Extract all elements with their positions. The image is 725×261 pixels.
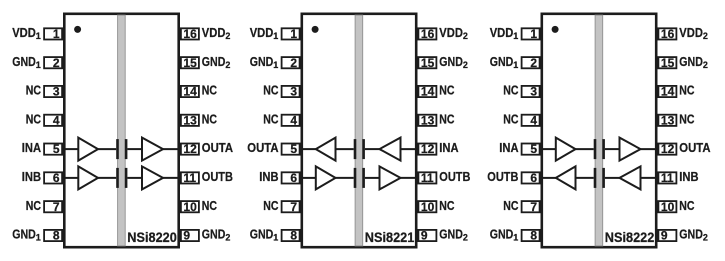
pin 14 box U2 xyxy=(418,86,436,97)
isolation capacitor CA left plate xyxy=(116,139,119,159)
wire U2 pin 6 (INB) to channel-B left buffer xyxy=(301,177,316,179)
svg-text:OUTB: OUTB xyxy=(439,169,470,184)
svg-text:4: 4 xyxy=(530,113,537,127)
svg-text:NC: NC xyxy=(503,198,519,213)
pin 11 box U2 xyxy=(418,172,436,183)
svg-text:GND: GND xyxy=(250,227,274,242)
pin 1 label VDD1 xyxy=(250,25,279,41)
svg-text:1: 1 xyxy=(273,60,278,70)
pin 3 box U1 xyxy=(44,86,62,97)
svg-text:NC: NC xyxy=(679,198,695,213)
svg-text:6: 6 xyxy=(530,171,537,185)
pin 1 box U1 xyxy=(44,28,62,39)
svg-text:1: 1 xyxy=(53,27,60,41)
buffer U3B2 channel B right (driver) xyxy=(620,166,641,189)
pin 14 box U3 xyxy=(658,86,676,97)
pin 15 label GND2 xyxy=(439,54,468,70)
svg-text:5: 5 xyxy=(53,142,60,156)
pin 8 box U1 xyxy=(44,230,62,241)
pin 9 box U2 xyxy=(418,230,436,241)
pin 1 label VDD1 xyxy=(12,25,41,41)
svg-text:3: 3 xyxy=(53,85,60,99)
wire U1 pin 6 (INB) to channel-B left buffer xyxy=(63,177,78,179)
pin 7 box U1 xyxy=(44,201,62,212)
svg-text:INA: INA xyxy=(22,140,42,155)
svg-text:11: 11 xyxy=(661,171,674,185)
pin 13 box U3 xyxy=(658,115,676,126)
svg-text:NC: NC xyxy=(26,198,42,213)
pin 8 label GND1 xyxy=(490,227,519,243)
pin 1 indicator dot U2 xyxy=(312,26,319,33)
isolation capacitor CA right plate xyxy=(125,139,128,159)
svg-text:GND: GND xyxy=(439,227,463,242)
wire isolation capacitor CA to channel-A right buffer xyxy=(127,148,142,150)
pin 1 indicator dot U1 xyxy=(74,26,81,33)
wire channel-B right buffer to pin 11 (OUTB) xyxy=(163,177,180,179)
svg-text:5: 5 xyxy=(290,142,297,156)
svg-text:14: 14 xyxy=(183,85,197,99)
isolation barrier U3 xyxy=(595,15,603,246)
isolation capacitor CB left plate xyxy=(116,168,119,188)
wire channel-B left buffer to isolation capacitor CB xyxy=(336,177,354,179)
buffer U1A2 channel A right (receiver) xyxy=(142,138,163,161)
svg-text:2: 2 xyxy=(703,233,708,243)
svg-text:2: 2 xyxy=(290,56,297,70)
svg-text:6: 6 xyxy=(290,171,297,185)
svg-text:15: 15 xyxy=(661,56,675,70)
svg-text:VDD: VDD xyxy=(679,25,703,40)
svg-text:2: 2 xyxy=(225,60,230,70)
svg-text:9: 9 xyxy=(421,229,428,243)
svg-text:NC: NC xyxy=(679,111,695,126)
pin 8 box U2 xyxy=(282,230,300,241)
svg-text:NC: NC xyxy=(202,83,218,98)
svg-text:INB: INB xyxy=(259,169,278,184)
wire isolation capacitor CB to channel-B right buffer xyxy=(605,177,620,179)
svg-text:16: 16 xyxy=(661,27,675,41)
svg-text:GND: GND xyxy=(490,227,514,242)
wire isolation capacitor CB to channel-B right buffer xyxy=(127,177,142,179)
svg-text:13: 13 xyxy=(183,113,197,127)
svg-text:GND: GND xyxy=(679,227,703,242)
pin 2 label GND1 xyxy=(250,54,279,70)
svg-text:GND: GND xyxy=(439,54,463,69)
pin 15 label GND2 xyxy=(679,54,708,70)
svg-text:7: 7 xyxy=(53,200,60,214)
isolation capacitor CB right plate xyxy=(125,168,128,188)
pin 2 box U3 xyxy=(522,57,540,68)
wire isolation capacitor CA to channel-A right buffer xyxy=(605,148,620,150)
svg-text:7: 7 xyxy=(290,200,297,214)
isolation capacitor CB left plate xyxy=(594,168,597,188)
pin 6 box U2 xyxy=(282,172,300,183)
pin 9 box U3 xyxy=(658,230,676,241)
wire isolation capacitor CB to channel-B right buffer xyxy=(365,177,380,179)
isolation capacitor CB left plate xyxy=(354,168,357,188)
wire isolation capacitor CA to channel-A right buffer xyxy=(365,148,380,150)
svg-text:12: 12 xyxy=(421,142,435,156)
svg-text:11: 11 xyxy=(183,171,196,185)
pin 3 box U2 xyxy=(282,86,300,97)
svg-text:8: 8 xyxy=(530,229,537,243)
pin 5 box U3 xyxy=(522,144,540,155)
pin 16 box U3 xyxy=(658,28,676,39)
svg-text:4: 4 xyxy=(290,113,297,127)
svg-text:11: 11 xyxy=(421,171,434,185)
buffer U2B1 channel B left (driver) xyxy=(316,166,336,189)
IC U1 NSi8220 package body xyxy=(64,14,178,247)
svg-text:1: 1 xyxy=(36,233,41,243)
pin 12 box U1 xyxy=(181,144,199,155)
svg-text:2: 2 xyxy=(463,60,468,70)
pin 16 label VDD2 xyxy=(679,25,708,41)
svg-text:INA: INA xyxy=(439,140,459,155)
svg-text:13: 13 xyxy=(421,113,435,127)
svg-text:15: 15 xyxy=(183,56,197,70)
pin 2 label GND1 xyxy=(12,54,41,70)
svg-text:2: 2 xyxy=(53,56,60,70)
buffer U2A1 channel A left (receiver) xyxy=(316,138,336,161)
pin 1 box U3 xyxy=(522,28,540,39)
svg-text:GND: GND xyxy=(12,54,36,69)
wire channel-A left buffer to isolation capacitor CA xyxy=(98,148,116,150)
svg-text:VDD: VDD xyxy=(490,25,514,40)
svg-text:8: 8 xyxy=(290,229,297,243)
svg-text:14: 14 xyxy=(661,85,675,99)
svg-text:NC: NC xyxy=(503,111,519,126)
IC U3 NSi8222 package body xyxy=(542,14,656,247)
pin 1 box U2 xyxy=(282,28,300,39)
svg-text:7: 7 xyxy=(530,200,537,214)
svg-text:2: 2 xyxy=(463,233,468,243)
svg-text:VDD: VDD xyxy=(439,25,463,40)
svg-text:GND: GND xyxy=(12,227,36,242)
pin 9 label GND2 xyxy=(202,227,231,243)
svg-text:NC: NC xyxy=(263,111,279,126)
svg-text:NC: NC xyxy=(26,111,42,126)
pin 7 box U3 xyxy=(522,201,540,212)
svg-text:NSi8222: NSi8222 xyxy=(605,229,655,245)
svg-text:16: 16 xyxy=(421,27,435,41)
svg-text:1: 1 xyxy=(36,31,41,41)
pin 5 box U2 xyxy=(282,144,300,155)
pin 3 box U3 xyxy=(522,86,540,97)
buffer U1B1 channel B left (driver) xyxy=(78,166,98,189)
pin 2 label GND1 xyxy=(490,54,519,70)
wire channel-B left buffer to isolation capacitor CB xyxy=(576,177,594,179)
svg-text:3: 3 xyxy=(530,85,537,99)
pin 4 box U2 xyxy=(282,115,300,126)
svg-text:GND: GND xyxy=(250,54,274,69)
svg-text:GND: GND xyxy=(679,54,703,69)
svg-text:2: 2 xyxy=(225,233,230,243)
svg-text:NSi8220: NSi8220 xyxy=(127,229,177,245)
svg-text:2: 2 xyxy=(703,60,708,70)
pin 1 indicator dot U3 xyxy=(552,26,559,33)
isolation capacitor CB right plate xyxy=(602,168,605,188)
svg-text:OUTB: OUTB xyxy=(202,169,233,184)
pin 7 box U2 xyxy=(282,201,300,212)
svg-text:8: 8 xyxy=(53,229,60,243)
svg-text:NC: NC xyxy=(439,111,455,126)
pin 10 box U3 xyxy=(658,201,676,212)
buffer U3B1 channel B left (receiver) xyxy=(556,166,576,189)
pin 8 box U3 xyxy=(522,230,540,241)
svg-text:NC: NC xyxy=(26,83,42,98)
svg-text:1: 1 xyxy=(273,233,278,243)
pin 5 box U1 xyxy=(44,144,62,155)
svg-text:12: 12 xyxy=(661,142,675,156)
pin 16 label VDD2 xyxy=(439,25,468,41)
buffer U3A1 channel A left (driver) xyxy=(556,138,576,161)
svg-text:GND: GND xyxy=(202,54,226,69)
svg-text:10: 10 xyxy=(421,200,435,214)
wire U2 pin 5 (OUTA) to channel-A left buffer xyxy=(301,148,316,150)
svg-text:4: 4 xyxy=(53,113,60,127)
wire channel-B right buffer to pin 11 (INB) xyxy=(641,177,658,179)
wire U3 pin 6 (OUTB) to channel-B left buffer xyxy=(541,177,556,179)
buffer U3A2 channel A right (receiver) xyxy=(620,138,641,161)
pin 1 label VDD1 xyxy=(490,25,519,41)
pin 16 box U1 xyxy=(181,28,199,39)
svg-text:13: 13 xyxy=(661,113,675,127)
pin 12 box U3 xyxy=(658,144,676,155)
pin 11 box U3 xyxy=(658,172,676,183)
pin 15 box U2 xyxy=(418,57,436,68)
svg-text:9: 9 xyxy=(183,229,190,243)
svg-text:1: 1 xyxy=(273,31,278,41)
svg-text:OUTA: OUTA xyxy=(202,140,234,155)
svg-text:GND: GND xyxy=(202,227,226,242)
buffer U1A1 channel A left (driver) xyxy=(78,138,98,161)
isolation capacitor CA left plate xyxy=(354,139,357,159)
svg-text:VDD: VDD xyxy=(12,25,36,40)
isolation barrier U1 xyxy=(118,15,126,246)
pin 15 box U1 xyxy=(181,57,199,68)
isolation barrier U2 xyxy=(355,15,363,246)
pin 15 box U3 xyxy=(658,57,676,68)
buffer U2A2 channel A right (driver) xyxy=(380,138,401,161)
pin 6 box U1 xyxy=(44,172,62,183)
pin 9 label GND2 xyxy=(439,227,468,243)
svg-text:10: 10 xyxy=(183,200,197,214)
pin 8 label GND1 xyxy=(250,227,279,243)
svg-text:OUTA: OUTA xyxy=(247,140,279,155)
wire channel-B right buffer to pin 11 (OUTB) xyxy=(401,177,418,179)
svg-text:1: 1 xyxy=(513,60,518,70)
pin 13 box U1 xyxy=(181,115,199,126)
pin 9 label GND2 xyxy=(679,227,708,243)
svg-text:VDD: VDD xyxy=(202,25,226,40)
buffer U1B2 channel B right (receiver) xyxy=(142,166,163,189)
isolation capacitor CA right plate xyxy=(602,139,605,159)
svg-text:2: 2 xyxy=(530,56,537,70)
pin 16 box U2 xyxy=(418,28,436,39)
pin 11 box U1 xyxy=(181,172,199,183)
svg-text:1: 1 xyxy=(36,60,41,70)
pin 14 box U1 xyxy=(181,86,199,97)
svg-text:6: 6 xyxy=(53,171,60,185)
pin 4 box U1 xyxy=(44,115,62,126)
IC U2 NSi8221 package body xyxy=(302,14,416,247)
svg-text:3: 3 xyxy=(290,85,297,99)
svg-text:2: 2 xyxy=(225,31,230,41)
pin 16 label VDD2 xyxy=(202,25,231,41)
svg-text:16: 16 xyxy=(183,27,197,41)
wire channel-A left buffer to isolation capacitor CA xyxy=(576,148,594,150)
svg-text:2: 2 xyxy=(463,31,468,41)
wire channel-A right buffer to pin 12 (INA) xyxy=(401,148,418,150)
svg-text:5: 5 xyxy=(530,142,537,156)
pin 10 box U1 xyxy=(181,201,199,212)
svg-text:NC: NC xyxy=(263,83,279,98)
svg-text:INB: INB xyxy=(22,169,41,184)
svg-text:12: 12 xyxy=(183,142,197,156)
pin 2 box U2 xyxy=(282,57,300,68)
svg-text:9: 9 xyxy=(661,229,668,243)
svg-text:INB: INB xyxy=(679,169,698,184)
isolation capacitor CA left plate xyxy=(594,139,597,159)
svg-text:NC: NC xyxy=(439,83,455,98)
svg-text:NC: NC xyxy=(439,198,455,213)
wire U1 pin 5 (INA) to channel-A left buffer xyxy=(63,148,78,150)
pin 13 box U2 xyxy=(418,115,436,126)
svg-text:GND: GND xyxy=(490,54,514,69)
svg-text:2: 2 xyxy=(703,31,708,41)
svg-text:NC: NC xyxy=(503,83,519,98)
svg-text:10: 10 xyxy=(661,200,675,214)
svg-text:NC: NC xyxy=(202,111,218,126)
svg-text:OUTA: OUTA xyxy=(679,140,711,155)
svg-text:OUTB: OUTB xyxy=(487,169,518,184)
wire channel-A left buffer to isolation capacitor CA xyxy=(336,148,354,150)
svg-text:NSi8221: NSi8221 xyxy=(365,229,415,245)
svg-text:1: 1 xyxy=(513,31,518,41)
svg-text:1: 1 xyxy=(530,27,537,41)
svg-text:INA: INA xyxy=(499,140,519,155)
pin 4 box U3 xyxy=(522,115,540,126)
pin 6 box U3 xyxy=(522,172,540,183)
wire U3 pin 5 (INA) to channel-A left buffer xyxy=(541,148,556,150)
svg-text:NC: NC xyxy=(202,198,218,213)
svg-text:VDD: VDD xyxy=(250,25,274,40)
pin 9 box U1 xyxy=(181,230,199,241)
buffer U2B2 channel B right (receiver) xyxy=(380,166,401,189)
pin 8 label GND1 xyxy=(12,227,41,243)
svg-text:NC: NC xyxy=(679,83,695,98)
isolation capacitor CA right plate xyxy=(362,139,365,159)
wire channel-A right buffer to pin 12 (OUTA) xyxy=(641,148,658,150)
svg-text:NC: NC xyxy=(263,198,279,213)
pin 2 box U1 xyxy=(44,57,62,68)
pin 10 box U2 xyxy=(418,201,436,212)
wire channel-B left buffer to isolation capacitor CB xyxy=(98,177,116,179)
isolation capacitor CB right plate xyxy=(362,168,365,188)
svg-text:1: 1 xyxy=(290,27,297,41)
svg-text:15: 15 xyxy=(421,56,435,70)
pin 12 box U2 xyxy=(418,144,436,155)
svg-text:14: 14 xyxy=(421,85,435,99)
svg-text:1: 1 xyxy=(513,233,518,243)
pin 15 label GND2 xyxy=(202,54,231,70)
wire channel-A right buffer to pin 12 (OUTA) xyxy=(163,148,180,150)
